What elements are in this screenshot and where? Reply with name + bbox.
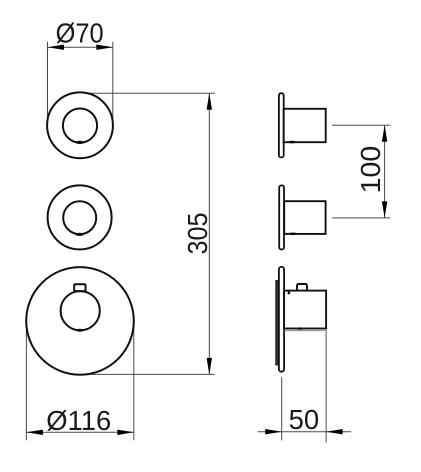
dimension D5 50 extension line right	[325, 331, 327, 443]
knob K3 indicator tick	[76, 329, 84, 332]
svg-text:305: 305	[182, 213, 213, 255]
dimension D1 Ø70 extension line left	[47, 42, 49, 120]
dimension D5 50 extension line left	[281, 377, 283, 440]
side view S2 knob body	[284, 201, 325, 234]
dimension D4 Ø116 dimension line	[26, 431, 133, 433]
dimension D2 arrow down	[207, 358, 212, 375]
dimension D4 arrow left	[26, 430, 43, 435]
knob K2 indicator tick	[75, 233, 84, 236]
side view S1 flange plate	[279, 93, 284, 157]
knob K3 tab	[74, 284, 85, 291]
knob K1 outer circle	[47, 92, 113, 158]
svg-text:100: 100	[355, 146, 386, 194]
knob K3 handle circle	[61, 291, 100, 330]
dimension D3 100 extension line top	[332, 124, 390, 126]
side view S3 dot detail	[288, 292, 291, 295]
dimension D2 305 dimension line	[208, 93, 210, 374]
side view S1 screw detail	[288, 141, 296, 144]
svg-text:50: 50	[289, 404, 320, 435]
knob K2 inner circle	[63, 201, 96, 234]
svg-text:Ø116: Ø116	[46, 405, 111, 436]
dimension D4 Ø116 extension line left	[25, 321, 27, 440]
knob K1 indicator tick	[75, 141, 84, 144]
dimension D1 arrow left	[48, 45, 65, 50]
side view S3 bottom screw detail	[296, 327, 304, 329]
side view S2 screw detail	[289, 233, 297, 236]
dimension D3 100 extension line bottom	[332, 217, 390, 219]
dimension D4 arrow right	[117, 430, 134, 435]
dimension D5 arrow left	[265, 429, 282, 434]
knob K2 outer circle	[48, 185, 112, 249]
side view S2 flange plate	[279, 185, 284, 249]
side view S3 backplate	[276, 281, 279, 366]
side view S1 knob body	[284, 109, 326, 142]
side view S3 lower edge line	[284, 330, 326, 332]
dimension D1 Ø70 extension line right	[112, 42, 114, 120]
dimension D3 arrow down	[382, 201, 387, 218]
knob K1 inner circle	[63, 109, 97, 143]
dimension D2 305 extension line top	[80, 92, 215, 94]
dimension D3 100 dimension line	[384, 125, 386, 218]
dimension D1 Ø70 dimension line	[48, 46, 113, 48]
side view S3 rosette plate	[279, 267, 284, 372]
knob K3 outer circle	[26, 267, 134, 375]
dimension D5 50 dimension line	[258, 431, 351, 433]
side view S3 tab	[297, 284, 307, 291]
dimension D2 arrow up	[207, 93, 212, 110]
dimension D4 Ø116 extension line right	[133, 321, 135, 440]
dimension D2 305 extension line bottom	[82, 373, 215, 375]
dimension D3 arrow up	[382, 125, 387, 142]
svg-text:Ø70: Ø70	[56, 18, 104, 49]
dimension D1 arrow right	[96, 45, 113, 50]
dimension D5 arrow right	[326, 429, 343, 434]
side view S3 handle body	[284, 291, 326, 329]
